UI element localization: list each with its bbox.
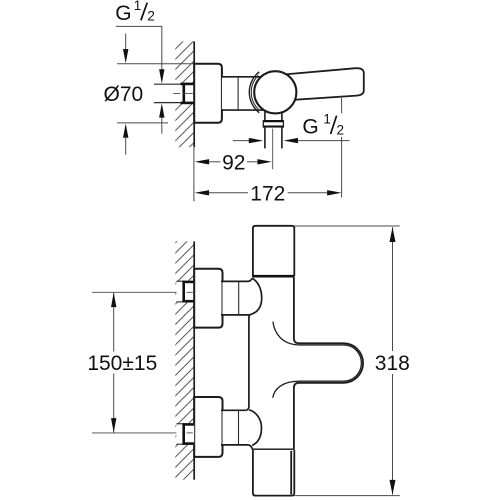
dia70 bottom extension line [117, 122, 168, 124]
svg-text:G: G [115, 2, 131, 25]
lower union cylinder [221, 410, 253, 449]
upper union nut [182, 281, 194, 303]
172 dimension [195, 96, 342, 206]
wall hatching (top view) [175, 41, 194, 147]
svg-text:G: G [302, 115, 318, 138]
supply pipe (top view) [154, 84, 194, 102]
svg-text:Ø70: Ø70 [104, 83, 144, 106]
main body top handle [253, 226, 294, 276]
trim ring arcs [249, 72, 259, 113]
lower union flare [249, 410, 262, 446]
dia 70 dimension [104, 34, 144, 155]
lever [285, 68, 364, 100]
lower union axis / 150 extension line [92, 432, 193, 434]
svg-text:92: 92 [222, 152, 245, 175]
leader line from G1/2 label to pipe [116, 26, 165, 83]
upper union escutcheon [194, 269, 222, 328]
arrow to pipe bottom (up arrow) [159, 103, 164, 134]
upper union small cylinder behind nut [176, 281, 183, 302]
escutcheon (top view) [194, 64, 222, 123]
92 dimension [194, 147, 272, 201]
upper union axis / 150 extension line [92, 291, 193, 293]
upper union flare [250, 278, 262, 315]
main body middle fill [250, 276, 294, 450]
handle knob circle [254, 71, 296, 113]
svg-text:1: 1 [134, 0, 142, 13]
svg-text:1: 1 [323, 111, 331, 126]
pipe centerline (top view) [173, 92, 193, 94]
wall hatching (lower view) [175, 241, 194, 479]
outlet G1/2 arrows [233, 138, 350, 143]
outlet neck [265, 108, 282, 120]
bottom handle separator (thick) [252, 449, 294, 452]
wall surface line (top view) [193, 41, 195, 147]
svg-text:2: 2 [147, 9, 155, 24]
body cylinder (top view) [222, 77, 265, 110]
svg-text:318: 318 [375, 352, 410, 375]
dia70 top extension line [117, 63, 194, 65]
bottom handle inner right line [290, 451, 292, 495]
svg-text:172: 172 [250, 182, 285, 205]
spout inner line [273, 322, 362, 398]
318 dimension [294, 226, 410, 496]
G 1/2 label (outlet) [302, 111, 344, 138]
lower union escutcheon [194, 397, 222, 457]
150+-15 dimension [87, 293, 157, 433]
outlet pipe centerline / 92 extension [272, 129, 274, 170]
upper union cylinder [221, 278, 252, 315]
union nut (top view) [180, 83, 193, 104]
wall surface line (lower view) [193, 241, 195, 479]
top handle separator (thick) [252, 275, 294, 278]
main body bottom handle [253, 450, 294, 496]
lower union nut [182, 423, 194, 445]
main body right edge and spout outline [294, 277, 363, 449]
connector between unions [247, 315, 250, 410]
outlet pipe [265, 128, 282, 149]
svg-text:2: 2 [337, 122, 345, 137]
lower union small cylinder behind nut [176, 424, 183, 445]
G 1/2 label (top left) [115, 0, 155, 25]
svg-text:150±15: 150±15 [87, 352, 157, 375]
outlet collar nut [263, 120, 283, 128]
